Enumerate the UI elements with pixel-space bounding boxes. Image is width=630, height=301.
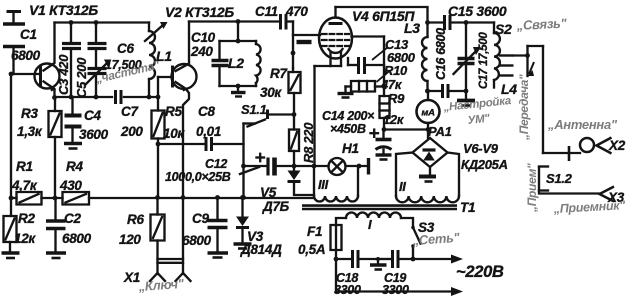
svg-text:S1.2: S1.2: [546, 171, 573, 186]
svg-text:С16 6800: С16 6800: [434, 28, 448, 80]
svg-text:V1 КТ312Б: V1 КТ312Б: [29, 2, 98, 18]
svg-text:R4: R4: [66, 159, 83, 174]
svg-text:„Передача": „Передача": [517, 74, 531, 141]
svg-text:C7: C7: [121, 104, 139, 119]
svg-text:V2 КТ312Б: V2 КТ312Б: [165, 4, 234, 20]
svg-text:C11: C11: [255, 4, 278, 19]
svg-text:II: II: [399, 179, 406, 194]
svg-text:R5: R5: [165, 104, 182, 119]
svg-text:РА1: РА1: [428, 124, 452, 139]
svg-text:T1: T1: [460, 200, 475, 215]
svg-text:C8: C8: [198, 104, 215, 119]
svg-text:III: III: [318, 177, 329, 192]
svg-text:6800: 6800: [62, 231, 92, 246]
svg-text:мА: мА: [421, 108, 435, 119]
svg-text:L1: L1: [156, 48, 172, 64]
svg-text:Д814Д: Д814Д: [240, 242, 282, 257]
svg-text:C1: C1: [20, 27, 37, 42]
svg-text:F1: F1: [307, 224, 322, 239]
svg-text:430: 430: [59, 178, 82, 193]
svg-text:Д7Б: Д7Б: [262, 199, 290, 214]
svg-text:R10: R10: [384, 63, 408, 78]
svg-text:C2: C2: [64, 211, 81, 226]
svg-text:С12: С12: [205, 157, 227, 171]
svg-text:3300: 3300: [382, 283, 409, 297]
svg-text:C4: C4: [84, 108, 101, 123]
svg-text:0,5А: 0,5А: [298, 242, 325, 257]
svg-text:1000,0×25В: 1000,0×25В: [165, 170, 231, 184]
svg-text:С14 200×: С14 200×: [322, 109, 375, 123]
svg-text:S2: S2: [495, 21, 512, 37]
svg-text:R7: R7: [270, 66, 288, 81]
svg-text:47к: 47к: [380, 77, 403, 92]
svg-text:R2: R2: [18, 211, 35, 226]
svg-text:1,3к: 1,3к: [17, 124, 43, 139]
svg-text:V6-V9: V6-V9: [463, 141, 499, 156]
svg-text:R6: R6: [127, 212, 144, 227]
svg-text:12к: 12к: [383, 112, 405, 127]
svg-text:УМ": УМ": [467, 113, 491, 127]
svg-text:×450В: ×450В: [330, 122, 366, 136]
svg-text:H1: H1: [342, 141, 359, 156]
svg-text:6800: 6800: [11, 48, 41, 63]
svg-text:10к: 10к: [163, 126, 185, 141]
svg-text:С3 420: С3 420: [56, 54, 71, 95]
svg-text:3300: 3300: [334, 283, 361, 297]
svg-text:C6: C6: [117, 41, 134, 56]
svg-text:X1: X1: [123, 270, 140, 285]
svg-text:L2: L2: [228, 55, 244, 71]
svg-text:„Антенна": „Антенна": [547, 117, 618, 132]
svg-text:С5 200: С5 200: [74, 57, 89, 98]
svg-text:30к: 30к: [260, 85, 282, 100]
svg-text:С15 3600: С15 3600: [448, 3, 507, 19]
svg-text:C10: C10: [191, 30, 216, 45]
svg-text:X2: X2: [608, 138, 626, 153]
svg-text:S1.1: S1.1: [241, 102, 267, 117]
svg-text:C9: C9: [192, 211, 209, 226]
svg-text:120: 120: [119, 232, 141, 247]
svg-text:6800: 6800: [182, 233, 212, 248]
svg-text:~220В: ~220В: [456, 263, 504, 281]
svg-text:0,01: 0,01: [196, 124, 221, 139]
svg-text:4,7к: 4,7к: [11, 178, 38, 193]
svg-text:R3: R3: [21, 106, 38, 121]
svg-text:L3: L3: [404, 20, 420, 36]
svg-text:R8 220: R8 220: [301, 122, 316, 163]
svg-text:R1: R1: [16, 159, 33, 174]
svg-text:„Прием": „Прием": [525, 163, 539, 213]
svg-text:КД205А: КД205А: [461, 157, 508, 172]
svg-text:200: 200: [120, 124, 143, 139]
svg-text:3600: 3600: [79, 127, 109, 142]
svg-text:V5: V5: [260, 185, 277, 200]
svg-text:С17 17,500: С17 17,500: [478, 32, 490, 89]
svg-text:470: 470: [285, 4, 308, 19]
svg-text:12к: 12к: [14, 231, 36, 246]
svg-text:R9: R9: [388, 91, 405, 106]
svg-text:240: 240: [190, 44, 213, 59]
svg-text:„Связь": „Связь": [515, 15, 567, 33]
